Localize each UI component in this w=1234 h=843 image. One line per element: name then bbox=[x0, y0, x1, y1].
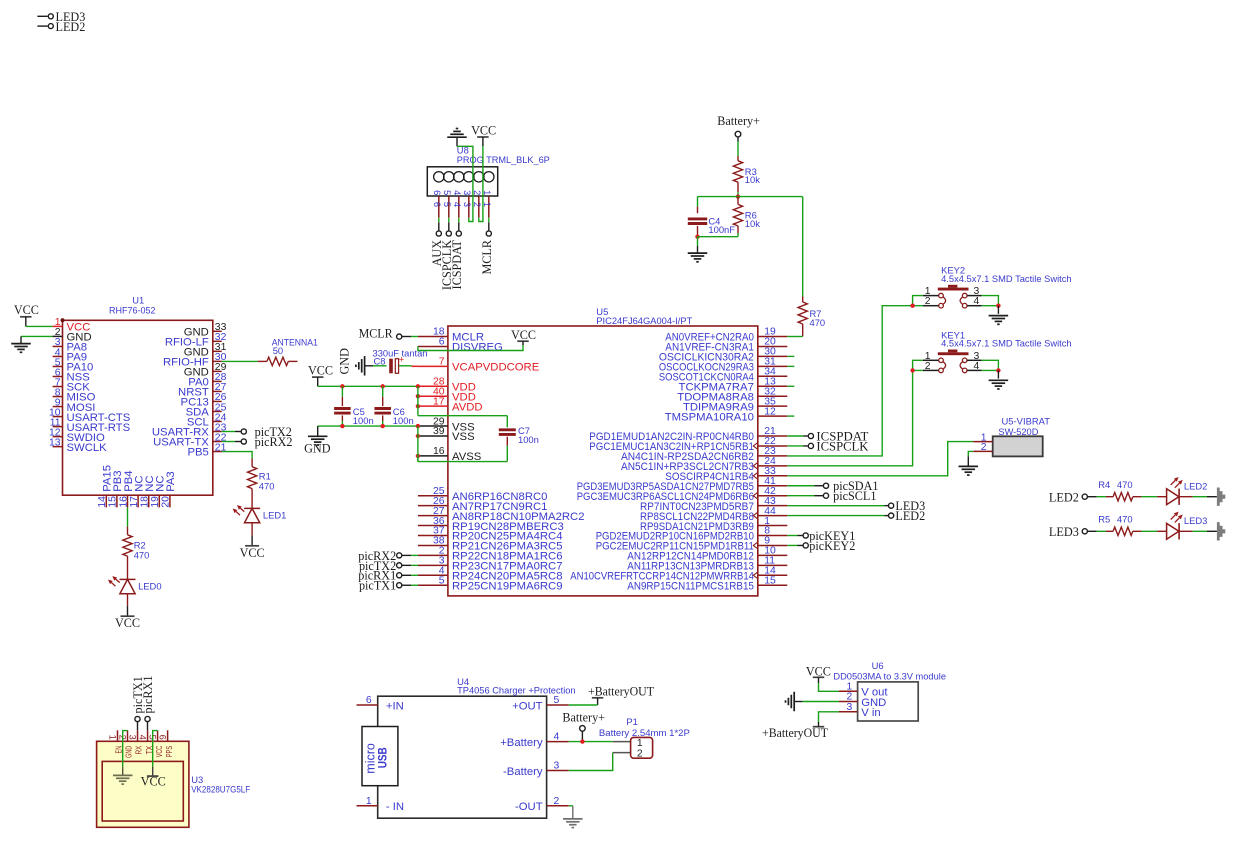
pin label picTX1 (U3) bbox=[131, 676, 145, 730]
svg-text:3: 3 bbox=[127, 735, 137, 740]
switch KEY1 labels bbox=[941, 329, 1072, 348]
svg-text:-OUT: -OUT bbox=[515, 801, 543, 813]
svg-text:LED0: LED0 bbox=[138, 581, 161, 592]
U5 pin 2 RP22CN18PMA1RC6 bbox=[418, 546, 563, 563]
U4 pin 5 +OUT bbox=[512, 695, 569, 712]
wire to R4 bbox=[1097, 496, 1114, 498]
U5 pin 11 AN11RP13CN13PMRDRB13 bbox=[627, 556, 787, 573]
U5 pin function mark bbox=[753, 542, 757, 548]
ground symbol (C8) bbox=[356, 356, 373, 376]
pin label AUX bbox=[430, 218, 444, 267]
pin label picSCL1 bbox=[787, 489, 876, 503]
junction KEY2 right bbox=[996, 304, 1000, 308]
capacitor C4 100nF bbox=[688, 216, 735, 237]
svg-text:GND: GND bbox=[124, 746, 134, 758]
module U3 inner body bbox=[102, 761, 183, 821]
U1 pin 26 PC13 bbox=[181, 392, 227, 408]
U1 pin 6 NSS bbox=[53, 367, 91, 383]
svg-text:picTX1: picTX1 bbox=[359, 579, 396, 593]
svg-text:470: 470 bbox=[1117, 479, 1133, 490]
svg-text:MCLR: MCLR bbox=[359, 327, 394, 341]
svg-text:VCC: VCC bbox=[154, 746, 164, 758]
svg-text:19: 19 bbox=[150, 496, 161, 508]
wire KEY2 pins 3-4 bbox=[982, 296, 999, 306]
U5 pin 38 RP21CN26PMA3RC5 bbox=[418, 536, 563, 553]
svg-text:LED3: LED3 bbox=[1184, 515, 1207, 526]
U1 pin 21 PB5 bbox=[187, 442, 226, 458]
wire to R5 bbox=[1097, 530, 1114, 532]
power symbol +BatteryOUT (U6) bbox=[762, 726, 829, 740]
ground symbol (KEY1) bbox=[989, 370, 1009, 389]
wire C7 to VSS rail bbox=[418, 456, 507, 462]
switch KEY2 pin 1 bbox=[923, 286, 939, 297]
LED LED1 bbox=[233, 505, 287, 523]
svg-text:+BatteryOUT: +BatteryOUT bbox=[588, 685, 655, 699]
U3 pin 4 TX bbox=[137, 730, 153, 754]
wire DISVREG to VCC bbox=[418, 345, 523, 351]
svg-text:10k: 10k bbox=[745, 218, 760, 229]
switch KEY1 pin 4 bbox=[967, 361, 981, 372]
switch KEY2 contacts bbox=[939, 293, 967, 308]
junction C4 bottom bbox=[695, 235, 699, 239]
pin label ICSPDAT bbox=[787, 429, 869, 443]
U5 pin function mark bbox=[753, 493, 757, 499]
junction VDD pin40 bbox=[416, 394, 420, 398]
svg-text:LED2: LED2 bbox=[1184, 480, 1207, 491]
IC U6 value DD0503MA to 3.3V module bbox=[833, 671, 946, 682]
U5 pin 10 AN12RP12CN14PMD0RB12 bbox=[627, 546, 787, 563]
U1 pin 24 SCL bbox=[187, 412, 227, 428]
svg-text:LED2: LED2 bbox=[895, 509, 925, 523]
svg-text:picRX1: picRX1 bbox=[141, 676, 155, 714]
U1 pin 10 USART-CTS bbox=[49, 407, 131, 423]
power symbol VCC (U6) bbox=[806, 664, 831, 678]
U1 pin 7 SCK bbox=[53, 377, 91, 393]
U6 pin 2 GND bbox=[839, 692, 886, 709]
pin label Battery+ (P1) bbox=[562, 710, 605, 741]
svg-text:VCC: VCC bbox=[308, 363, 333, 377]
ground symbol (sensor) bbox=[959, 466, 979, 475]
svg-text:2: 2 bbox=[637, 749, 643, 760]
U5 pin 36 RP19CN28PMBERC3 bbox=[418, 516, 564, 533]
svg-text:2: 2 bbox=[981, 442, 987, 453]
svg-text:2: 2 bbox=[925, 361, 931, 372]
svg-text:VK2828U7G5LF: VK2828U7G5LF bbox=[191, 783, 250, 794]
svg-text:15: 15 bbox=[108, 496, 119, 508]
U6 pin 1 V out bbox=[839, 681, 888, 698]
svg-text:+IN: +IN bbox=[386, 700, 404, 712]
U1 pin 22 USART-TX bbox=[153, 432, 226, 448]
pin label picSDA1 bbox=[787, 479, 878, 493]
U5 pin 15 AN9RP15CN11PMCS1RB15 bbox=[627, 575, 787, 592]
U1 pin 33 GND bbox=[184, 322, 227, 338]
wire VSS rail bbox=[318, 425, 418, 427]
svg-text:100n: 100n bbox=[518, 434, 539, 445]
U5 pin 23 AN4C1IN-RP2SDA2CN6RB2 bbox=[621, 446, 787, 463]
svg-text:DD0503MA to 3.3V module: DD0503MA to 3.3V module bbox=[833, 671, 946, 682]
U1 pin 31 GND bbox=[184, 342, 227, 358]
U5 pin 37 RP20CN25PMA4RC4 bbox=[418, 526, 563, 543]
junction VSS rail C5 bbox=[340, 424, 344, 428]
wire R4 to LED2 bbox=[1133, 496, 1167, 498]
resistor R3 10k bbox=[733, 161, 760, 197]
IC U4 value TP4056 Charger +Protection bbox=[457, 685, 575, 696]
U5 pin 17 AVDD bbox=[418, 396, 483, 413]
svg-text:PA3: PA3 bbox=[165, 471, 177, 492]
junction VDD rail C5 bbox=[340, 384, 344, 388]
connector U8 reference bbox=[457, 145, 469, 156]
U4 pin 1 -IN bbox=[357, 796, 405, 813]
svg-text:GND: GND bbox=[304, 442, 331, 456]
U1 pin 12 SWDIO bbox=[49, 427, 105, 443]
LED LED2 bbox=[1167, 477, 1208, 505]
wire AVDD to C7 bbox=[418, 416, 507, 428]
wire sensor pin2 to ground bbox=[968, 451, 973, 466]
wire rail to C4 bbox=[697, 197, 699, 214]
U1 pin 2 GND bbox=[55, 327, 92, 343]
connector U8 body bbox=[427, 167, 497, 196]
IC U6 reference bbox=[872, 660, 884, 671]
U8 pin 3 bbox=[462, 172, 474, 218]
svg-text:5: 5 bbox=[439, 575, 445, 586]
svg-text:50: 50 bbox=[273, 345, 283, 356]
svg-text:4: 4 bbox=[974, 361, 980, 372]
svg-text:V in: V in bbox=[861, 707, 880, 719]
switch KEY2 button bbox=[938, 285, 969, 291]
U5 pin 28 VDD bbox=[418, 376, 476, 393]
sensor pin 1 bbox=[973, 432, 993, 443]
U5 pin 18 MCLR bbox=[418, 327, 484, 344]
IC U4 reference bbox=[457, 676, 469, 687]
pin label MCLR (U8 pin1) bbox=[480, 218, 494, 275]
power symbol VCC (U8) bbox=[471, 123, 496, 146]
svg-text:5: 5 bbox=[554, 695, 560, 706]
wire stub bbox=[787, 415, 794, 417]
U3 pin 2 GND bbox=[117, 730, 133, 758]
pin label picTX2 bbox=[359, 559, 418, 573]
resistor R4 470 bbox=[1098, 479, 1133, 501]
resistor R1 470 bbox=[248, 459, 275, 509]
switch KEY2 pin 3 bbox=[967, 286, 981, 297]
svg-text:LED3: LED3 bbox=[1049, 525, 1079, 539]
switch KEY2 pin 4 bbox=[967, 296, 981, 307]
U5 pin 24 AN5C1IN+RP3SCL2CN7RB3 bbox=[621, 456, 787, 473]
LED LED0 bbox=[108, 576, 162, 594]
switch KEY1 button bbox=[938, 350, 969, 356]
pin label picRX2 bbox=[222, 435, 293, 449]
U5 pin 35 TDIPMA9RA9 bbox=[683, 396, 787, 413]
svg-text:TMSPMA10RA10: TMSPMA10RA10 bbox=[665, 411, 754, 423]
capacitor C6 100n bbox=[374, 386, 413, 426]
resistor R5 470 bbox=[1098, 514, 1133, 536]
capacitor C8 330uF tantal bbox=[373, 347, 428, 373]
wire LED2 to off-page bbox=[1179, 496, 1217, 498]
wire -OUT to ground bbox=[569, 806, 573, 819]
U1 pin 23 USART-RX bbox=[152, 422, 227, 438]
U5 pin 41 PGD3EMUD3RP5ASDA1CN27PMD7RB5 bbox=[577, 476, 788, 493]
svg-text:14: 14 bbox=[97, 496, 108, 508]
wire R5 to LED3 bbox=[1133, 530, 1167, 532]
svg-text:VCC: VCC bbox=[115, 616, 140, 630]
resistor R7 470 bbox=[798, 297, 825, 337]
U1 pin 27 NRST bbox=[178, 382, 227, 398]
pin label picTX2 bbox=[222, 425, 292, 439]
U1 pin 25 SDA bbox=[186, 402, 227, 418]
wire KEY2 pins 1-2 bbox=[913, 296, 923, 306]
U1 pin 29 GND bbox=[184, 362, 227, 378]
wire stub bbox=[787, 355, 794, 357]
svg-text:6: 6 bbox=[439, 337, 445, 348]
power symbol VCC (LED0) bbox=[115, 616, 140, 630]
wire U1 pin30 to R antenna bbox=[222, 360, 258, 362]
switch KEY1 contacts bbox=[939, 358, 967, 373]
svg-text:R4: R4 bbox=[1098, 479, 1110, 490]
power symbol VCC (U3) bbox=[141, 775, 166, 789]
svg-text:+BatteryOUT: +BatteryOUT bbox=[762, 726, 829, 740]
pin label LED2 bbox=[1049, 490, 1097, 504]
wire U8 VCC to pin 2 bbox=[479, 146, 483, 222]
svg-text:-Battery: -Battery bbox=[503, 766, 543, 778]
svg-text:470: 470 bbox=[810, 317, 826, 328]
U5 pin 42 PGC3EMUC3RP6ASCL1CN24PMD6RB6 bbox=[577, 486, 788, 503]
svg-text:USB: USB bbox=[377, 747, 389, 768]
IC U1 value label bbox=[109, 305, 156, 316]
junction AVDD pin17 bbox=[416, 404, 420, 408]
power symbol VCC (U1 pin 1) bbox=[14, 303, 39, 326]
U5 pin function mark bbox=[753, 513, 757, 519]
ground symbol (C4) bbox=[688, 253, 708, 262]
svg-text:1: 1 bbox=[637, 738, 643, 749]
U3 pin 3 RX bbox=[127, 730, 143, 754]
U5 pin 6 DISVREG bbox=[418, 337, 503, 354]
switch KEY2 labels bbox=[941, 265, 1072, 284]
U5 pin 5 RP25CN19PMA6RC9 bbox=[418, 575, 563, 592]
U5 pin 13 TCKPMA7RA7 bbox=[679, 376, 788, 393]
wire U8 GND to pin 3 bbox=[457, 146, 473, 221]
svg-text:VCC: VCC bbox=[14, 303, 39, 317]
wire U5 pin23 to KEY2 bbox=[787, 306, 912, 456]
svg-text:1: 1 bbox=[366, 796, 372, 807]
wire LED1 to VCC bbox=[251, 523, 253, 546]
wire C8 to pin 7 bbox=[412, 365, 418, 367]
wire +OUT to +BatteryOUT bbox=[569, 704, 598, 706]
junction VDD rail C6 bbox=[381, 384, 385, 388]
svg-text:RX: RX bbox=[134, 745, 144, 754]
wire divider rail bbox=[698, 196, 803, 198]
U4 pin 2 -OUT bbox=[515, 796, 569, 813]
U1 pin 28 PA0 bbox=[188, 372, 226, 388]
pin label ICSPDAT bbox=[450, 218, 464, 290]
svg-text:3: 3 bbox=[554, 761, 560, 772]
junction VDD pin28 bbox=[416, 384, 420, 388]
U8 pin 6 bbox=[432, 172, 444, 218]
svg-text:VCAPVDDCORE: VCAPVDDCORE bbox=[452, 362, 540, 374]
pin label ICSPCLK bbox=[440, 218, 454, 291]
U5 pin 25 AN6RP16CN8RC0 bbox=[418, 486, 548, 503]
power symbol VCC (U5 DISVREG) bbox=[511, 328, 536, 345]
svg-text:picSCL1: picSCL1 bbox=[833, 489, 876, 503]
U1 pin 8 MISO bbox=[53, 387, 96, 403]
svg-text:17: 17 bbox=[129, 496, 140, 508]
wire VCC to U1 pin 1 bbox=[26, 325, 63, 327]
svg-text:LED2: LED2 bbox=[56, 20, 86, 34]
svg-text:100nF: 100nF bbox=[708, 224, 735, 235]
U5 pin 14 AN10CVREFRTCCRP14CN12PMWRRB14 bbox=[570, 566, 787, 583]
svg-text:+OUT: +OUT bbox=[512, 700, 543, 712]
module U3 outer body bbox=[97, 741, 189, 827]
U1 pin 32 RFIO-LF bbox=[165, 332, 227, 348]
svg-text:5: 5 bbox=[442, 202, 452, 207]
svg-text:4.5x4.5x7.1 SMD Tactile Switch: 4.5x4.5x7.1 SMD Tactile Switch bbox=[941, 273, 1072, 284]
U5 pin 22 PGC1EMUC1AN3C2IN+RP1CN5RB1 bbox=[589, 436, 787, 453]
svg-text:SW-520D: SW-520D bbox=[998, 426, 1038, 437]
pin label Battery+ bbox=[717, 114, 760, 141]
svg-text:39: 39 bbox=[433, 426, 445, 437]
svg-text:- IN: - IN bbox=[386, 801, 404, 813]
svg-text:4: 4 bbox=[452, 190, 462, 195]
svg-text:GND: GND bbox=[338, 348, 352, 375]
svg-text:LED2: LED2 bbox=[1049, 490, 1079, 504]
junction AVSS pin16 bbox=[416, 454, 420, 458]
svg-text:6: 6 bbox=[432, 202, 442, 207]
svg-text:ICSPDAT: ICSPDAT bbox=[450, 239, 464, 289]
U3 pin 6 PPS bbox=[157, 730, 173, 757]
svg-text:3: 3 bbox=[847, 702, 853, 713]
ground symbol (KEY2) bbox=[989, 306, 1009, 325]
pin label LED3 bbox=[1049, 525, 1097, 539]
IC U1 RHF76-052 body bbox=[63, 320, 213, 495]
switch KEY1 pin 3 bbox=[967, 351, 981, 362]
U1 pin 19 NC bbox=[150, 475, 167, 507]
U6 pin 3 V in bbox=[839, 702, 881, 719]
svg-text:100n: 100n bbox=[353, 415, 374, 426]
wire KEY1 pins 1-2 bbox=[913, 360, 923, 370]
module U3 reference bbox=[191, 774, 203, 785]
svg-text:U5-VIBRAT: U5-VIBRAT bbox=[1002, 415, 1051, 426]
svg-text:+Battery: +Battery bbox=[500, 737, 543, 749]
svg-text:PPS: PPS bbox=[164, 745, 174, 757]
wire U3 VCC bbox=[153, 731, 158, 777]
U8 pin 5 bbox=[442, 172, 454, 218]
U5 pin 34 SOSCOT1CKCN0RA4 bbox=[659, 367, 787, 384]
U1 pin 16 PB4 bbox=[118, 470, 135, 507]
capacitor C7 100n bbox=[499, 425, 539, 461]
U1 pin 20 PA3 bbox=[161, 471, 178, 507]
svg-text:6: 6 bbox=[432, 190, 442, 195]
U1 pin 17 NC bbox=[129, 475, 146, 507]
junction KEY1 right bbox=[996, 368, 1000, 372]
ground symbol (U4) bbox=[563, 819, 583, 828]
svg-text:16: 16 bbox=[433, 446, 445, 457]
svg-text:2: 2 bbox=[554, 796, 560, 807]
svg-text:2: 2 bbox=[925, 296, 931, 307]
wire +Battery to P1 bbox=[569, 741, 631, 743]
svg-text:AVDD: AVDD bbox=[452, 401, 483, 413]
connector P1 body bbox=[631, 737, 653, 759]
pin stub LED2 bbox=[37, 20, 85, 34]
U5 pin 27 AN8RP18CN10PMA2RC2 bbox=[418, 506, 585, 523]
IC U6 body bbox=[858, 682, 919, 721]
U5 pin 43 RP7INT0CN23PMD5RB7 bbox=[640, 496, 787, 513]
wire GND to U1 pin 2 bbox=[21, 336, 63, 343]
svg-text:Battery+: Battery+ bbox=[717, 114, 760, 128]
U1 pin 18 NC bbox=[140, 475, 157, 507]
U4 pin 4 +Battery bbox=[500, 732, 568, 749]
capacitor C5 100n bbox=[334, 386, 374, 426]
U3 pin 5 VCC bbox=[147, 730, 163, 757]
svg-text:VSS: VSS bbox=[452, 431, 475, 443]
pin label picRX2 bbox=[358, 549, 418, 563]
resistor ANTENNA1 50 bbox=[258, 337, 318, 366]
svg-text:RHF76-052: RHF76-052 bbox=[109, 305, 156, 316]
svg-text:18: 18 bbox=[140, 496, 151, 508]
wire ground to U6 pin2 bbox=[794, 701, 839, 703]
wire LED3 to off-page bbox=[1179, 530, 1217, 532]
pin stub LED3 bbox=[37, 10, 85, 24]
U8 pin 1 bbox=[482, 172, 494, 218]
rotated label GND (C8) bbox=[338, 348, 352, 375]
IC U5 reference bbox=[596, 306, 608, 317]
svg-text:470: 470 bbox=[1117, 514, 1133, 525]
svg-text:15: 15 bbox=[764, 575, 776, 586]
svg-text:17: 17 bbox=[433, 396, 445, 407]
IC U5 value PIC24FJ64GA004-I/PT bbox=[596, 315, 692, 326]
svg-text:5: 5 bbox=[442, 190, 452, 195]
svg-text:4: 4 bbox=[974, 296, 980, 307]
svg-text:Battery 2.54mm 1*2P: Battery 2.54mm 1*2P bbox=[599, 727, 690, 738]
power symbol VCC (C5 rail) bbox=[308, 363, 333, 386]
U5 pin 1 RP9SDA1CN21PMD3RB9 bbox=[640, 516, 787, 533]
resistor R2 470 bbox=[123, 527, 149, 580]
U8 pin 4 bbox=[452, 172, 464, 218]
svg-text:RP25CN19PMA6RC9: RP25CN19PMA6RC9 bbox=[452, 580, 563, 592]
U1 pin 3 PA8 bbox=[53, 337, 87, 353]
svg-text:AN9RP15CN11PMCS1RB15: AN9RP15CN11PMCS1RB15 bbox=[627, 580, 754, 592]
U5 pin 19 AN0VREF+CN2RA0 bbox=[665, 327, 787, 344]
svg-text:PB5: PB5 bbox=[187, 447, 208, 459]
U1 pin 13 SWCLK bbox=[49, 437, 107, 453]
svg-text:picKEY2: picKEY2 bbox=[809, 539, 855, 553]
U5 pin function mark bbox=[753, 473, 757, 479]
U5 pin 20 AN1VREF-CN3RA1 bbox=[665, 337, 787, 354]
pin label picRX1 bbox=[358, 569, 418, 583]
svg-text:DISVREG: DISVREG bbox=[452, 342, 503, 354]
U5 pin function mark bbox=[753, 443, 757, 449]
svg-text:3: 3 bbox=[462, 190, 472, 195]
svg-text:VCC: VCC bbox=[806, 664, 831, 678]
svg-text:MCLR: MCLR bbox=[480, 239, 494, 274]
svg-text:TP4056 Charger +Protection: TP4056 Charger +Protection bbox=[457, 685, 575, 696]
U3 pin 1 EN bbox=[107, 730, 123, 753]
U1 pin 15 PB3 bbox=[108, 470, 125, 507]
junction R3/R6 bbox=[736, 194, 740, 198]
U5 pin 31 OSCOCLKOCN29RA3 bbox=[659, 357, 787, 374]
wire KEY1 pins 3-4 bbox=[982, 360, 999, 370]
sensor pin 2 bbox=[973, 442, 993, 453]
svg-text:470: 470 bbox=[259, 481, 275, 492]
sensor U5-VIBRAT body bbox=[993, 436, 1043, 456]
wire R7 to U5 pin19 bbox=[787, 336, 802, 338]
wire rail to R7 bbox=[802, 197, 804, 297]
wire VDD pins chain bbox=[417, 386, 419, 415]
svg-text:10k: 10k bbox=[745, 174, 760, 185]
U4 pin 3 -Battery bbox=[503, 761, 569, 778]
svg-text:4.5x4.5x7.1 SMD Tactile Switch: 4.5x4.5x7.1 SMD Tactile Switch bbox=[941, 338, 1072, 349]
IC U4 body bbox=[378, 696, 547, 818]
wire U1 pin21 to R1 bbox=[222, 452, 252, 459]
svg-text:4: 4 bbox=[554, 732, 560, 743]
U5 pin 44 RP8SCL1CN22PMD4RB8 bbox=[640, 506, 787, 523]
